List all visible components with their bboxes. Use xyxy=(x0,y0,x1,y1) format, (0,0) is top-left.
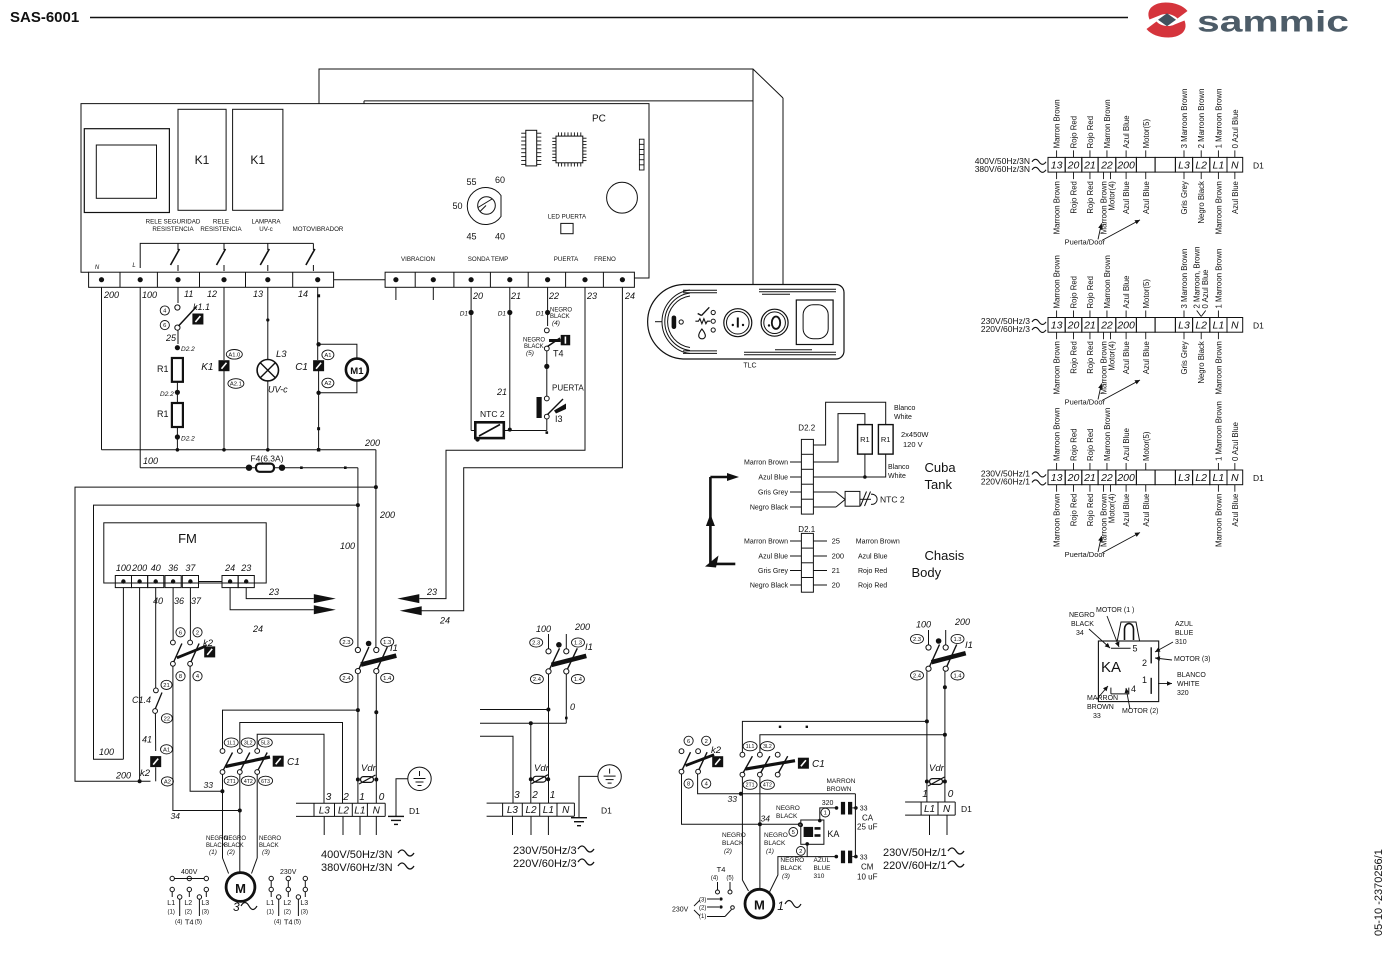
svg-text:R1: R1 xyxy=(881,435,891,444)
svg-text:21: 21 xyxy=(1083,472,1096,484)
svg-text:I1: I1 xyxy=(965,640,973,651)
svg-text:Marroon Brown: Marroon Brown xyxy=(1053,341,1062,394)
FM terminal label 24 xyxy=(224,563,235,573)
svg-text:NEGRO: NEGRO xyxy=(224,836,246,842)
svg-text:36: 36 xyxy=(174,596,184,606)
svg-text:M1: M1 xyxy=(350,366,364,377)
H1 wire sec3 xyxy=(742,719,929,752)
FM terminal label 37 xyxy=(185,563,196,573)
terminal number 21 xyxy=(510,291,521,301)
svg-text:k2: k2 xyxy=(711,745,722,756)
pin 4 circled k2s1 xyxy=(193,672,202,681)
FM terminal label 200 xyxy=(131,563,147,573)
k1 contact 11 xyxy=(171,243,180,271)
svg-text:Puerta/Door: Puerta/Door xyxy=(1065,398,1106,407)
control board outline xyxy=(81,104,649,278)
svg-text:M: M xyxy=(754,898,765,913)
tick marks sec3 xyxy=(779,726,808,728)
svg-text:L2: L2 xyxy=(338,805,350,816)
svg-text:6: 6 xyxy=(163,323,166,329)
svg-text:21: 21 xyxy=(510,291,521,301)
svg-text:BLANCO: BLANCO xyxy=(1177,672,1206,679)
svg-text:100: 100 xyxy=(340,541,355,551)
relay KA small xyxy=(799,819,824,846)
svg-text:(1): (1) xyxy=(699,914,706,920)
transformer inner xyxy=(96,145,156,198)
svg-text:RESISTENCIA: RESISTENCIA xyxy=(152,226,194,233)
svg-text:K1: K1 xyxy=(250,153,265,167)
svg-text:23: 23 xyxy=(426,587,437,597)
svg-text:13: 13 xyxy=(253,289,263,299)
varistor Vdr s2 xyxy=(532,763,550,784)
link table 230V xyxy=(266,869,308,927)
terminal number 23 xyxy=(586,291,597,301)
svg-text:(3): (3) xyxy=(782,873,790,880)
pin 4 circled k2s3 xyxy=(702,779,711,788)
svg-text:2.3: 2.3 xyxy=(913,637,921,643)
svg-text:(1): (1) xyxy=(209,849,217,856)
svg-text:M: M xyxy=(235,881,246,896)
pin 6 circled xyxy=(160,321,169,330)
svg-text:MARRON: MARRON xyxy=(827,778,856,785)
wire col 13 xyxy=(266,287,269,450)
wire 6T3 to motor xyxy=(252,774,258,873)
pin 2 circled KA xyxy=(796,847,805,856)
svg-text:2: 2 xyxy=(196,630,199,636)
label 200 bus xyxy=(364,438,380,448)
svg-text:LED PUERTA: LED PUERTA xyxy=(548,214,587,221)
svg-text:D1: D1 xyxy=(409,806,420,816)
svg-text:Azul Blue: Azul Blue xyxy=(1142,494,1151,527)
svg-text:Rojo Red: Rojo Red xyxy=(1086,116,1095,149)
label I1 sec2 xyxy=(585,642,593,653)
node D2.2 b xyxy=(160,390,180,398)
svg-text:(3): (3) xyxy=(301,910,308,916)
svg-text:(3): (3) xyxy=(262,849,270,856)
svg-text:Rojo Red: Rojo Red xyxy=(1086,494,1095,527)
svg-text:1: 1 xyxy=(777,899,784,913)
relay K1 box B xyxy=(233,109,283,210)
svg-text:24: 24 xyxy=(624,291,635,301)
svg-text:40: 40 xyxy=(153,596,163,606)
svg-text:N: N xyxy=(1231,160,1239,172)
svg-text:L2: L2 xyxy=(184,900,192,907)
wire pin1 to CA xyxy=(820,806,839,820)
svg-text:Motor(4): Motor(4) xyxy=(1107,181,1116,211)
svg-text:(1): (1) xyxy=(267,910,274,916)
pin 1.4 circled s1 xyxy=(381,673,394,682)
label Azul Blue D2.1L xyxy=(758,554,801,561)
svg-text:400V/50Hz/3N: 400V/50Hz/3N xyxy=(321,849,393,861)
svg-text:Marroon Brown: Marroon Brown xyxy=(1214,181,1223,234)
numbers 1 0 s3 xyxy=(922,789,954,800)
svg-text:N: N xyxy=(562,805,570,816)
svg-text:45: 45 xyxy=(466,232,476,242)
svg-text:(2): (2) xyxy=(185,910,192,916)
label VIBRACION xyxy=(401,256,435,263)
label CA 25uF xyxy=(857,814,878,832)
svg-text:24: 24 xyxy=(224,563,235,573)
label 40 below xyxy=(153,596,163,606)
svg-text:33: 33 xyxy=(204,780,214,790)
svg-text:(2): (2) xyxy=(699,906,706,912)
svg-text:D1: D1 xyxy=(1253,321,1264,331)
svg-text:L1: L1 xyxy=(354,805,365,816)
svg-text:100: 100 xyxy=(143,456,158,466)
svg-text:Marroon Brown: Marroon Brown xyxy=(1053,181,1062,234)
varistor Vdr s3 xyxy=(928,763,945,786)
contactor C1 sec1 xyxy=(220,749,284,775)
stub 200 s2 xyxy=(566,622,590,649)
svg-text:KA: KA xyxy=(1101,659,1121,676)
terminal block sec3 xyxy=(905,802,955,815)
TLC indicator leds xyxy=(711,310,715,332)
svg-text:L1: L1 xyxy=(266,900,274,907)
label D1 sec1 xyxy=(409,806,420,816)
wire I1 left down s3 xyxy=(925,671,929,802)
wire L3 down s2 xyxy=(512,745,514,803)
FM terminal label 23 xyxy=(240,563,251,573)
svg-text:Azul Blue: Azul Blue xyxy=(758,554,788,561)
motor M 3ph xyxy=(226,873,255,902)
node D1 col22 xyxy=(536,287,551,326)
svg-text:2.3: 2.3 xyxy=(342,640,350,646)
relay KA box xyxy=(1098,622,1158,702)
node D1 col21 xyxy=(498,287,513,430)
stub L3 down s1 xyxy=(323,816,325,835)
pin 1L1 circled xyxy=(224,738,238,747)
capacitor CM xyxy=(841,851,858,864)
temp dial xyxy=(467,188,501,225)
svg-text:L3: L3 xyxy=(1178,472,1190,484)
svg-text:Gris Grey: Gris Grey xyxy=(758,568,788,575)
stub N down s1 xyxy=(375,816,377,835)
label 320 s3 xyxy=(822,800,834,807)
label NTC 2 tank xyxy=(880,495,905,505)
svg-text:RELE: RELE xyxy=(213,219,229,226)
connector D2.2 xyxy=(798,424,815,515)
dial number 40 xyxy=(495,232,505,242)
label 100 vert xyxy=(340,541,355,551)
svg-text:C1.4: C1.4 xyxy=(132,695,151,705)
fuse F4(6.3A) xyxy=(140,464,358,472)
svg-text:MOTOR (2): MOTOR (2) xyxy=(1122,708,1158,715)
svg-text:White: White xyxy=(894,414,912,421)
svg-text:3: 3 xyxy=(514,790,520,801)
FM control box xyxy=(104,523,266,583)
svg-text:L2: L2 xyxy=(1195,160,1207,172)
svg-text:Rojo Red: Rojo Red xyxy=(858,568,887,575)
svg-text:0: 0 xyxy=(379,792,385,803)
FM wire 23 arrow xyxy=(246,588,336,604)
svg-text:120 V: 120 V xyxy=(903,440,923,449)
terminal number 13 xyxy=(253,289,263,299)
svg-text:1 Marroon Brown: 1 Marroon Brown xyxy=(1214,249,1223,309)
svg-text:23: 23 xyxy=(268,587,279,597)
H2 wire sec2 xyxy=(480,717,568,726)
svg-text:Motor(5): Motor(5) xyxy=(1142,431,1151,461)
svg-text:L3: L3 xyxy=(1178,160,1190,172)
FM terminal label 100 xyxy=(116,563,131,573)
svg-text:320: 320 xyxy=(822,800,834,807)
svg-text:230V: 230V xyxy=(672,907,689,914)
svg-text:Cuba: Cuba xyxy=(925,460,957,475)
svg-text:1: 1 xyxy=(824,811,827,817)
svg-text:NTC 2: NTC 2 xyxy=(880,495,905,505)
svg-text:BLUE: BLUE xyxy=(1175,630,1194,637)
svg-text:L3: L3 xyxy=(319,805,331,816)
NTC 2 probe tank xyxy=(813,491,877,507)
label T4 xyxy=(553,349,564,359)
numbers 3 2 1 0 s1 xyxy=(326,792,385,803)
pin 22 circled xyxy=(161,714,172,723)
wire I1 left down s1 xyxy=(356,674,360,804)
terminal number 24 xyxy=(624,291,635,301)
svg-text:L1: L1 xyxy=(167,900,175,907)
H3 wire sec2 xyxy=(480,736,513,745)
svg-text:(3): (3) xyxy=(699,898,706,904)
svg-text:LAMPARA: LAMPARA xyxy=(251,219,281,226)
link table 400V xyxy=(167,869,209,927)
svg-text:NEGRO: NEGRO xyxy=(722,832,746,839)
svg-text:22: 22 xyxy=(1100,160,1113,172)
svg-text:A2.1: A2.1 xyxy=(230,382,242,388)
label 200 vert xyxy=(379,510,395,520)
node D2.2 a xyxy=(175,345,195,353)
svg-text:D2.2: D2.2 xyxy=(160,391,174,398)
stub 100 s3 xyxy=(916,620,931,645)
label 33 sec3 xyxy=(728,794,738,804)
svg-text:320: 320 xyxy=(1177,690,1189,697)
svg-text:20: 20 xyxy=(1067,472,1080,484)
svg-text:34: 34 xyxy=(1076,630,1084,637)
svg-text:k2: k2 xyxy=(203,638,214,649)
heater R1 a xyxy=(858,425,873,455)
svg-text:FM: FM xyxy=(178,531,197,546)
svg-text:Vdr: Vdr xyxy=(534,763,550,774)
label NEGRO BLACK 34 KA xyxy=(1069,612,1110,648)
svg-text:Gris Grey: Gris Grey xyxy=(1180,341,1189,374)
pin 1.4 circled s2 xyxy=(571,675,584,684)
label 34 sec1 xyxy=(171,811,181,821)
label 100 loop xyxy=(99,747,114,757)
TLC button O xyxy=(761,309,788,336)
board terminal strip right (20..24) xyxy=(385,272,634,287)
svg-text:200: 200 xyxy=(1116,320,1135,332)
terminal number 11 xyxy=(184,289,193,299)
label Blanco White mid xyxy=(888,464,910,480)
pin A1 circled k2coil xyxy=(161,745,173,754)
wire 4T2 to motor s3 xyxy=(759,777,761,890)
svg-text:1 Marroon Brown: 1 Marroon Brown xyxy=(1214,401,1223,461)
svg-text:NEGRO: NEGRO xyxy=(259,836,281,842)
svg-text:D1: D1 xyxy=(498,311,507,318)
svg-text:(5): (5) xyxy=(526,350,534,357)
svg-text:CA: CA xyxy=(862,814,874,823)
svg-text:Gris Grey: Gris Grey xyxy=(758,490,788,497)
earth D1 sec2 xyxy=(571,765,621,826)
wire 200 column xyxy=(101,287,103,450)
svg-text:2.4: 2.4 xyxy=(913,673,922,679)
svg-text:T4: T4 xyxy=(185,918,194,927)
svg-text:21: 21 xyxy=(496,387,507,397)
label F4(6.3A) xyxy=(250,454,283,464)
svg-text:R1: R1 xyxy=(860,435,870,444)
label NEGRO BLACK (2) s1 xyxy=(224,836,246,856)
svg-text:22: 22 xyxy=(1100,320,1113,332)
svg-text:RELE SEGURIDAD: RELE SEGURIDAD xyxy=(146,219,201,226)
svg-text:21: 21 xyxy=(1083,320,1096,332)
svg-text:13: 13 xyxy=(1051,320,1063,332)
H2 wire sec3 xyxy=(760,733,947,753)
svg-text:R1: R1 xyxy=(157,364,169,374)
wire heater staircase 1 xyxy=(813,402,885,445)
svg-text:2T1: 2T1 xyxy=(746,783,755,789)
svg-text:0: 0 xyxy=(570,702,575,712)
label LED PUERTA xyxy=(548,214,587,221)
svg-text:1: 1 xyxy=(1142,675,1147,685)
svg-text:K1: K1 xyxy=(195,153,210,167)
svg-text:33: 33 xyxy=(728,794,738,804)
pin 5 circled KA xyxy=(789,828,798,837)
svg-text:2: 2 xyxy=(531,790,538,801)
svg-text:Rojo Red: Rojo Red xyxy=(1086,181,1095,214)
svg-text:Marron Brown: Marron Brown xyxy=(744,539,788,546)
svg-text:100: 100 xyxy=(916,620,931,630)
svg-text:Negro Black: Negro Black xyxy=(750,505,789,512)
svg-text:(3): (3) xyxy=(202,910,209,916)
svg-text:200: 200 xyxy=(131,563,147,573)
numbers 3 2 1 s2 xyxy=(514,790,555,801)
label L3 xyxy=(276,349,287,360)
svg-text:20: 20 xyxy=(472,291,483,301)
svg-text:Vdr: Vdr xyxy=(361,763,377,774)
svg-text:A1.0: A1.0 xyxy=(228,352,240,358)
svg-text:Body: Body xyxy=(912,565,942,580)
svg-text:34: 34 xyxy=(171,811,181,821)
wire 33 sec3 xyxy=(698,774,856,857)
IC QFP chip xyxy=(552,132,586,166)
wire 23 out xyxy=(397,287,585,603)
bottom bus node 200 xyxy=(102,448,376,452)
pin 4T2 circled xyxy=(241,776,255,785)
supply text s1 xyxy=(321,849,414,874)
TLC resistor icon xyxy=(695,319,710,324)
svg-text:41: 41 xyxy=(142,735,152,745)
svg-text:55: 55 xyxy=(466,177,476,187)
svg-text:L2: L2 xyxy=(1195,320,1207,332)
label FRENO xyxy=(594,256,616,263)
svg-text:12: 12 xyxy=(207,289,217,299)
svg-text:BLACK: BLACK xyxy=(764,840,786,847)
svg-text:2.4: 2.4 xyxy=(342,676,351,682)
svg-text:NEGRO: NEGRO xyxy=(764,832,788,839)
svg-text:10 uF: 10 uF xyxy=(857,873,878,882)
svg-text:Marroon Brown: Marroon Brown xyxy=(1214,341,1223,394)
connector strip xyxy=(639,139,644,170)
terminal block sec1 L3 L2 L1 N xyxy=(296,803,385,816)
label RELE RESISTENCIA xyxy=(200,219,242,234)
svg-text:100: 100 xyxy=(536,624,551,634)
svg-text:2: 2 xyxy=(799,849,802,855)
svg-text:200: 200 xyxy=(379,510,395,520)
k1 contact 12 xyxy=(217,243,226,271)
svg-text:Marroon Brown: Marroon Brown xyxy=(1103,408,1112,461)
doc number 05-10 -2370256/1 xyxy=(1373,849,1385,936)
stub N down s3 xyxy=(946,815,948,835)
svg-text:1: 1 xyxy=(922,789,928,800)
earth D1 sec1 xyxy=(388,767,431,824)
svg-text:13: 13 xyxy=(1051,472,1063,484)
svg-text:20: 20 xyxy=(1067,320,1080,332)
wire 25 D2.1R xyxy=(813,537,899,546)
svg-text:Azul Blue: Azul Blue xyxy=(1122,494,1131,527)
svg-text:SAS-6001: SAS-6001 xyxy=(10,9,79,26)
svg-text:(4): (4) xyxy=(552,320,560,327)
svg-text:05-10 -2370256/1: 05-10 -2370256/1 xyxy=(1373,849,1385,936)
label 25 xyxy=(165,333,177,343)
svg-text:BLUE: BLUE xyxy=(814,865,832,872)
supply text s3 xyxy=(883,847,964,872)
svg-text:(2): (2) xyxy=(227,849,235,856)
motor M 1ph xyxy=(745,889,774,918)
FM terminal boxes xyxy=(115,576,254,588)
svg-text:3: 3 xyxy=(233,900,240,914)
svg-text:22: 22 xyxy=(164,716,170,722)
label MARRON BROWN s3 xyxy=(827,778,856,793)
230V selector s3 xyxy=(672,897,734,920)
lamp L3 UV-c xyxy=(257,360,278,381)
wire 200 vertical xyxy=(374,450,378,648)
label Chasis Body xyxy=(912,548,965,580)
svg-text:Vdr: Vdr xyxy=(929,763,945,774)
label 34 sec3 xyxy=(761,814,771,824)
svg-text:Marroon Brown: Marroon Brown xyxy=(1053,494,1062,547)
pin 4 circled xyxy=(160,306,169,315)
label PC xyxy=(592,114,606,125)
svg-text:A2: A2 xyxy=(164,779,171,785)
label C1 sec3 xyxy=(812,759,825,770)
relay contact bus xyxy=(140,243,313,268)
svg-text:White: White xyxy=(888,473,906,480)
svg-text:2: 2 xyxy=(705,739,708,745)
svg-text:Rojo Red: Rojo Red xyxy=(1070,428,1079,461)
svg-text:C1: C1 xyxy=(812,759,825,770)
wire 200 D2.1R xyxy=(813,552,887,561)
label D1 sec2 xyxy=(601,806,612,816)
svg-text:1.4: 1.4 xyxy=(953,673,962,679)
TLC bottom hatch xyxy=(683,350,836,355)
svg-text:Motor(4): Motor(4) xyxy=(1107,341,1116,371)
svg-text:Azul Blue: Azul Blue xyxy=(1122,115,1131,148)
contact C1.4 xyxy=(153,686,162,751)
svg-text:0 Azul Blue: 0 Azul Blue xyxy=(1231,422,1240,461)
svg-text:1.4: 1.4 xyxy=(383,676,392,682)
svg-text:230V/50Hz/1: 230V/50Hz/1 xyxy=(883,847,947,859)
wire pin2 to CM xyxy=(807,844,838,858)
svg-text:230V: 230V xyxy=(280,869,297,876)
svg-text:380V/60Hz/3N: 380V/60Hz/3N xyxy=(321,862,393,874)
label CM 10uF xyxy=(857,863,878,882)
wire col 14 xyxy=(316,287,320,450)
svg-text:L1: L1 xyxy=(1213,160,1225,172)
label AZUL BLUE 310 xyxy=(814,857,832,880)
svg-text:NEGRO: NEGRO xyxy=(780,857,804,864)
node D1 col20 xyxy=(460,287,474,424)
svg-text:220V/60Hz/3: 220V/60Hz/3 xyxy=(981,324,1030,334)
svg-text:Marron Brown: Marron Brown xyxy=(1103,99,1112,148)
svg-text:L: L xyxy=(132,263,135,269)
